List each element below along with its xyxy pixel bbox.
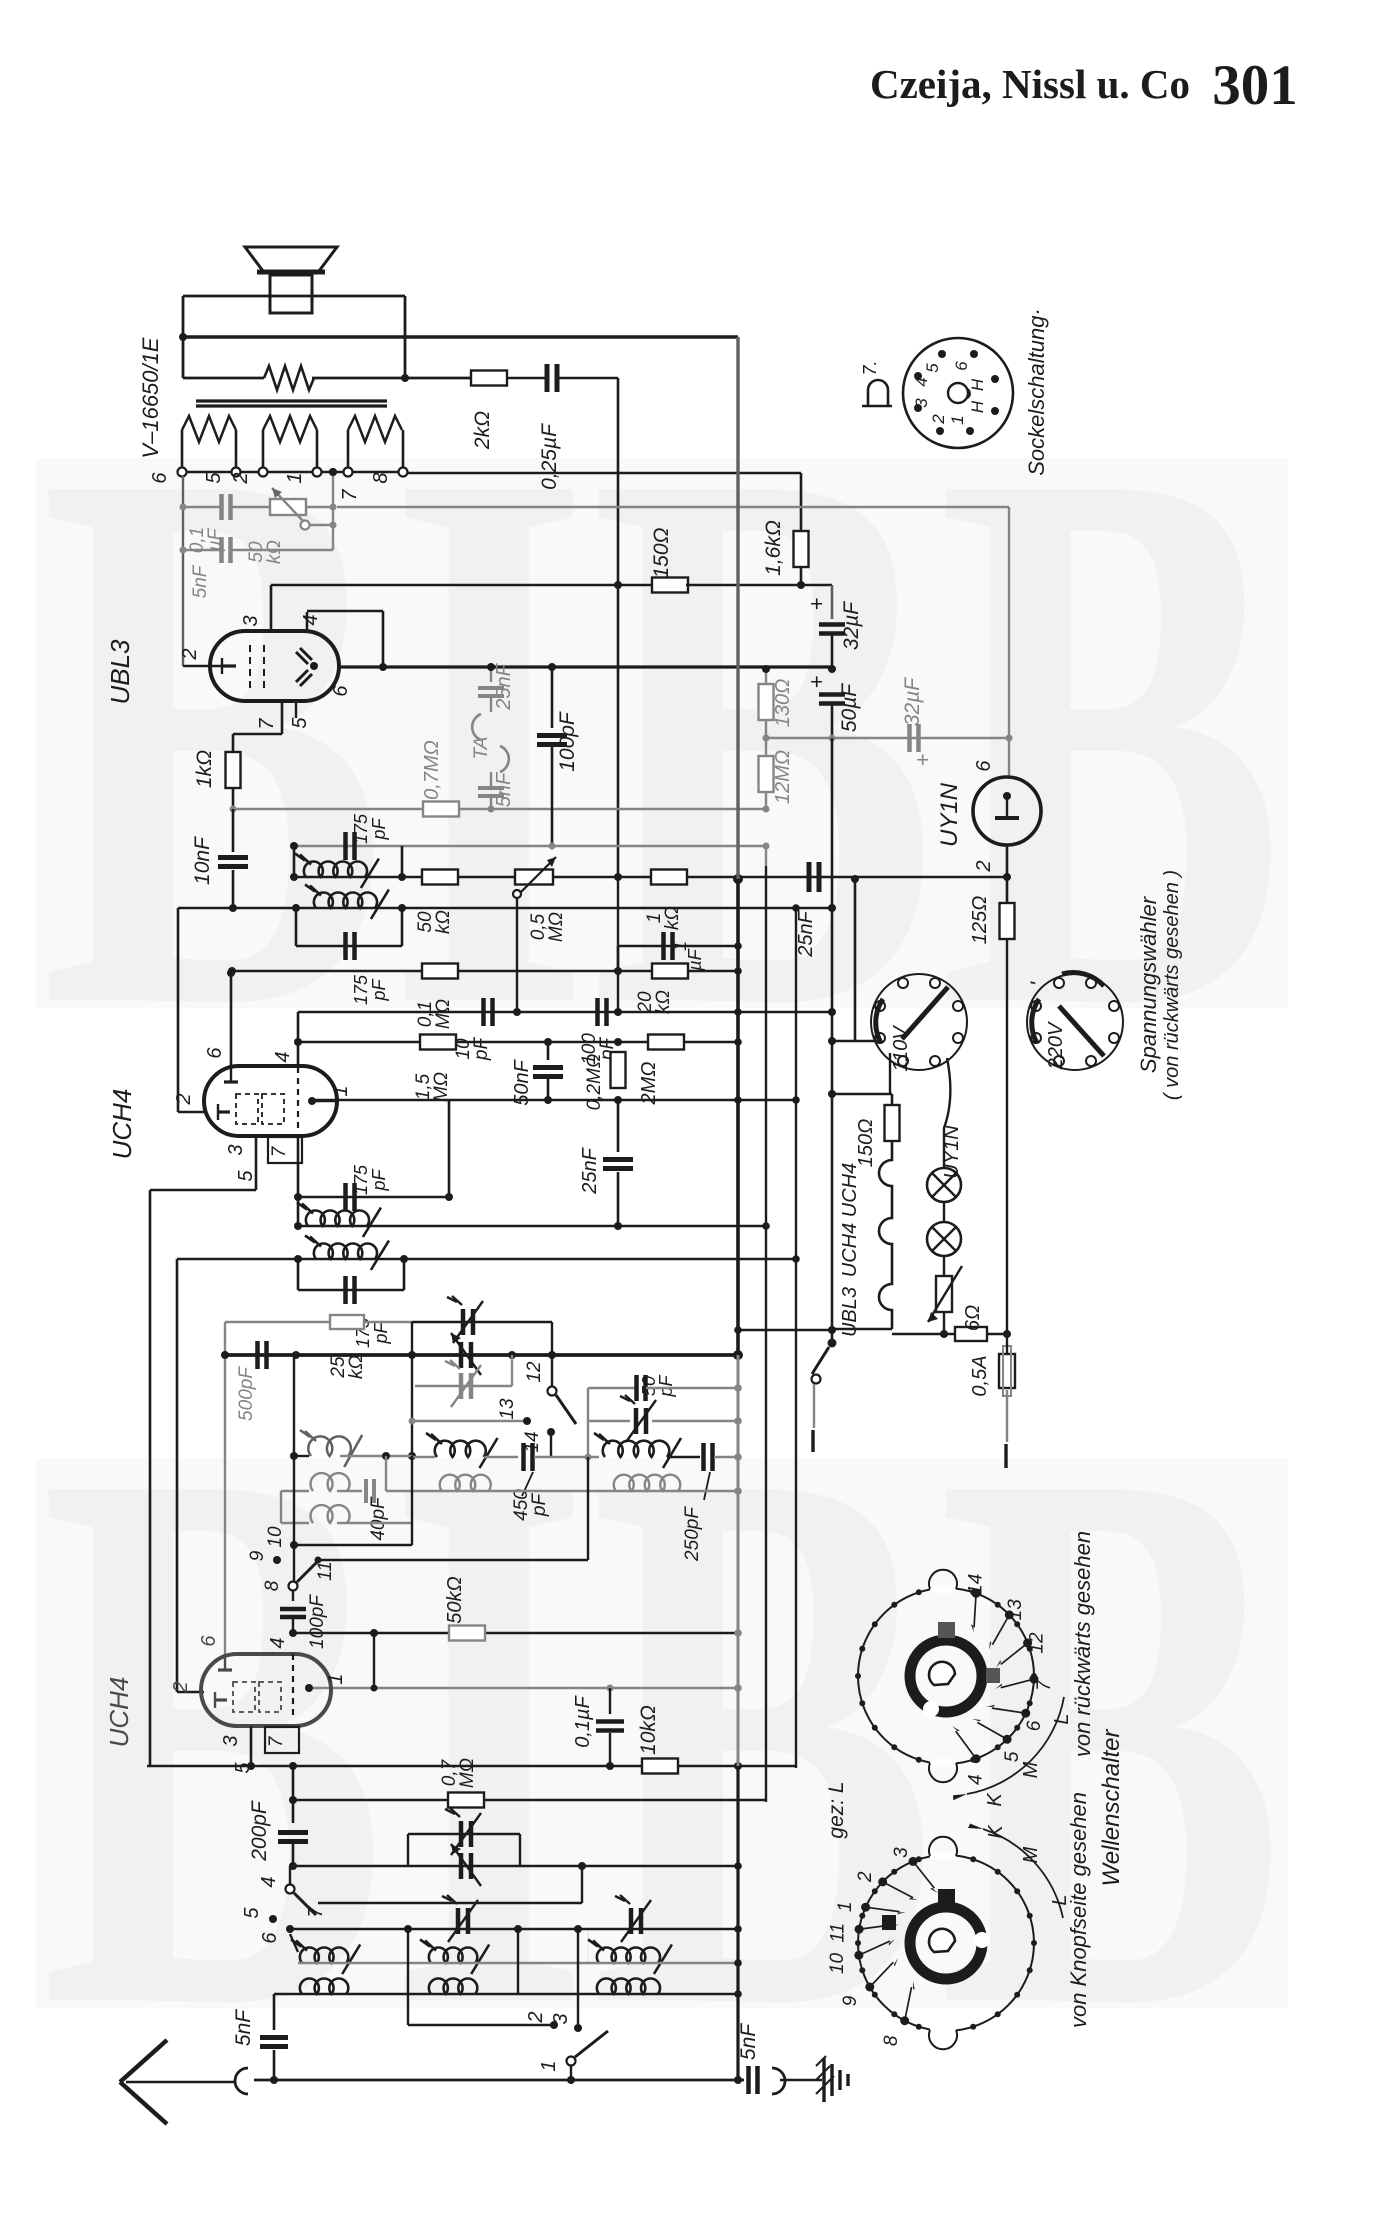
svg-text:25nF: 25nF [579,1146,601,1194]
svg-text:7: 7 [1034,1679,1055,1691]
svg-text:100pF: 100pF [556,711,579,772]
svg-text:1: 1 [538,2060,560,2071]
svg-text:MΩ: MΩ [431,1072,452,1102]
transformer primary winding 7-8 [347,430,350,467]
antenna coil row2 [300,1978,348,1994]
wire 50k line y1633 [293,1632,738,1635]
svg-text:+: + [804,675,829,688]
svg-text:Sockelschaltung·: Sockelschaltung· [1024,308,1049,476]
capacitor 25nF b [807,862,812,892]
coil IF Ib [314,1243,377,1259]
capacitor 50pF [634,1375,639,1401]
padder box [408,1833,520,1835]
oscillator coil row1 mid [435,1441,486,1457]
dial lamp 2 [943,1202,945,1222]
switch 8-11 [289,1582,298,1591]
phono jack TA branch [488,806,495,813]
svg-text:UCH4: UCH4 [104,1677,134,1748]
wire gray 0.7M line y809 [233,808,426,810]
cathode UBL3 [221,658,223,674]
wire terminal 6 down to UBL3 pin2 [182,476,184,666]
transformer primary winding 2-1 [262,430,265,467]
svg-text:3: 3 [550,2013,572,2024]
wire y1929 [290,1928,738,1930]
padder trimmer 1 [459,1821,464,1847]
svg-text:10: 10 [827,1952,848,1974]
gray coil row3 [311,1505,350,1523]
switch contact 12 [548,1387,557,1396]
svg-text:12: 12 [524,1361,545,1383]
svg-text:301: 301 [1212,54,1298,117]
pin 7 junction [289,1762,297,1770]
wire gray y507 to UY1N pin6 [337,506,1009,508]
svg-text:100pF: 100pF [307,1594,328,1649]
svg-text:von Knopfseite gesehen: von Knopfseite gesehen [1066,1792,1091,2028]
capacitor 25nF c [617,1100,620,1152]
svg-text:7: 7 [269,1145,290,1157]
wire 1k junction down [617,877,619,1012]
svg-text:5: 5 [241,1907,263,1919]
svg-text:10kΩ: 10kΩ [637,1705,660,1755]
svg-text:6: 6 [259,1932,281,1944]
gray coil row2 right [614,1475,681,1491]
resistor 1kOhm b [651,870,687,885]
transformer core bars [196,399,387,402]
wire gray osc 25k line [225,1321,330,1323]
wire gray y738 [766,737,1009,739]
svg-text:50nF: 50nF [511,1058,533,1105]
padder trimmer 2 [459,1853,464,1879]
capacitor 100pF b [595,998,600,1026]
svg-text:500pF: 500pF [236,1366,257,1421]
svg-text:V–16650/1E: V–16650/1E [138,337,163,458]
svg-text:5nF: 5nF [737,2023,760,2060]
potentiometer 50kOhm [270,499,306,515]
resistor 0,2MOhm [614,1038,622,1046]
resistor 0,7MOhm [423,802,459,817]
pin 3 wire b [250,1726,253,1766]
svg-text:1: 1 [284,472,306,483]
resistor 10kOhm [642,1759,678,1774]
svg-text:0,1µF: 0,1µF [572,1694,594,1747]
capacitor 32uF second [907,724,912,752]
wire gray y846 [294,845,766,847]
wire x832 rail [831,585,833,619]
wave switch front view [858,1855,1034,2031]
switch contact 4 [286,1885,295,1894]
svg-text:8: 8 [881,2035,902,2046]
svg-text:6: 6 [973,760,995,772]
wire main bus x738 [736,337,739,879]
wire pot bottom gray [183,549,221,551]
wire bus to switch [738,1329,832,1332]
svg-text:40pF: 40pF [368,1496,389,1541]
svg-text:kΩ: kΩ [346,1355,367,1379]
svg-text:2: 2 [929,414,948,425]
pin 7 wire [297,1136,300,1197]
svg-text:11: 11 [315,1561,336,1581]
pin 3 horizontal [150,1189,256,1192]
pin 7 box [268,1137,302,1163]
dial lamp 1 [927,1168,961,1202]
resistor 150Ohm heater [885,1105,900,1141]
capacitor 1uF 20k row [618,945,738,948]
svg-text:+: + [804,597,829,610]
capacitor 5nF right [746,2066,751,2094]
svg-text:175: 175 [351,974,371,1005]
antenna coil row1 [300,1947,348,1963]
pin 1 anode [308,1097,316,1105]
capacitor 175pF a [293,846,296,877]
svg-text:MΩ: MΩ [433,999,454,1029]
svg-text:5nF: 5nF [232,2009,255,2046]
svg-text:MΩ: MΩ [546,912,567,942]
contact 6 b [286,1925,294,1933]
contact 13 line [412,1420,527,1422]
svg-text:pF: pF [369,817,389,840]
svg-text:pF: pF [371,1321,391,1344]
rotor tab front [938,1889,955,1905]
heater chain bumps [879,1141,892,1329]
wire top bus [183,335,738,339]
voltage selector 220V [1027,974,1123,1070]
capacitor 5nF antenna [273,1994,276,2030]
svg-text:1: 1 [835,1901,856,1912]
resistor 2kOhm [471,371,507,386]
svg-text:6: 6 [204,1047,226,1059]
svg-text:3: 3 [891,1847,912,1858]
tube UCH4 first [204,1066,337,1136]
ground symbol [780,2079,822,2082]
gray line y1388 50pF [587,1388,589,1457]
resistor 50kOhm [422,870,458,885]
svg-text:6: 6 [149,472,171,484]
resistor 20kOhm [652,964,688,979]
transformer primary winding 6-5 [181,430,184,467]
wire left column x150 [149,1190,152,1766]
svg-text:2: 2 [525,2011,547,2023]
speaker [245,247,337,271]
capacitor 175pF d [297,1259,300,1290]
wire grid line y585 [271,584,655,587]
wire junction line y1355 [225,1353,738,1357]
svg-text:130Ω: 130Ω [772,679,794,728]
trimmer capacitor 3 [459,1373,464,1399]
svg-text:250pF: 250pF [682,1506,703,1562]
svg-text:MΩ: MΩ [457,1758,478,1788]
svg-text:125Ω: 125Ω [969,896,991,945]
svg-text:25nF: 25nF [493,662,515,710]
svg-text:2: 2 [855,1871,876,1883]
antenna trimmer B [629,1908,634,1934]
svg-text:pF: pF [656,1374,676,1397]
pin 4 wire jumper [306,612,309,631]
svg-text:6: 6 [952,361,971,371]
svg-text:175: 175 [351,1164,371,1195]
svg-text:7: 7 [256,718,278,730]
wire y1259 [177,1258,796,1261]
wire x296 osc down [293,1456,295,1581]
svg-text:7: 7 [305,1906,327,1918]
svg-text:( von rückwärts gesehen ): ( von rückwärts gesehen ) [1161,870,1183,1100]
antenna trimmer A [456,1908,461,1934]
wire bottom bus [254,2079,744,2082]
svg-text:3: 3 [225,1144,247,1155]
svg-text:2: 2 [173,1093,195,1105]
svg-text:6Ω: 6Ω [962,1305,984,1331]
svg-text:4: 4 [272,1051,294,1062]
svg-text:UY1N: UY1N [936,782,963,847]
decorative watermark [36,305,1288,2169]
svg-text:UCH4: UCH4 [107,1089,137,1160]
capacitor 200pF [292,1766,295,1823]
contact 5 b [269,1915,277,1923]
bell symbol [868,380,888,406]
resistor 12MOhm [765,738,767,756]
gray coil row2 left [311,1473,350,1491]
capacitor 100pF [548,663,556,671]
svg-text:kΩ: kΩ [653,990,674,1014]
wire x796 [795,908,797,1768]
wire [507,377,545,380]
variable resistor shunt [943,1256,945,1277]
svg-text:4: 4 [267,1637,289,1648]
resistor 150Ohm [652,578,688,593]
svg-text:2: 2 [973,860,995,872]
svg-text:1: 1 [325,1673,347,1684]
contact 10 [290,1541,298,1549]
wave switch rear view [858,1588,1034,1764]
node bus [733,874,743,884]
wire left down to UCH4 pin2 [177,908,180,1112]
svg-text:14: 14 [966,1574,987,1595]
tube UY1N [973,777,1041,845]
pin 6 anode wire [339,665,832,668]
svg-text:11: 11 [827,1923,848,1943]
capacitor 500pF [255,1341,260,1369]
svg-text:pF: pF [471,1037,492,1062]
svg-text:2kΩ: 2kΩ [471,411,494,450]
capacitor 10pF [481,998,486,1026]
terminal 2 [259,468,268,477]
power switch [828,1339,837,1348]
svg-text:5: 5 [289,717,311,729]
svg-text:pF: pF [369,978,389,1001]
fuse 0,5A [999,1354,1015,1388]
svg-text:7: 7 [339,489,361,501]
oscillator coil small [294,1455,309,1457]
svg-text:4: 4 [300,614,322,625]
svg-text:TA: TA [471,737,492,760]
capacitor 175pF b [295,908,298,946]
pin 2 wire [183,665,222,668]
resistor 6 Ohm [892,1333,1007,1336]
node junction 1-7 [329,468,337,476]
gray link y1386 [511,1355,513,1386]
resistor 1,5MOhm [420,1035,456,1050]
gray line y1421 trimmer [588,1420,630,1422]
transformer secondary winding [183,377,264,380]
rotor tab rear [938,1622,955,1638]
capacitor 0,1uF [219,494,224,520]
svg-text:12MΩ: 12MΩ [772,750,794,804]
grid dashes UBL3 [249,645,251,690]
wire x412 down [411,1355,413,1456]
svg-text:5nF: 5nF [493,771,515,807]
coil IF IIa [304,861,367,877]
svg-text:3: 3 [912,398,931,408]
switch 1-2-3 [550,2021,558,2029]
capacitor 50nF [544,1038,552,1046]
svg-text:32µF: 32µF [840,601,863,650]
node 50uF top [828,665,836,673]
coil IF IIb [314,892,377,908]
pin1 line UCH4 second [309,1687,738,1689]
trimmer capacitor 1 [461,1309,466,1335]
resistor 125 Ohm [1006,877,1009,903]
svg-text:1: 1 [948,415,967,424]
pin 6 wire [230,973,233,1067]
gray coil row2 mid [440,1475,491,1491]
capacitor 5nF TA [478,786,504,790]
resistor 1kOhm [232,734,235,752]
wire [686,584,832,587]
svg-text:3: 3 [240,615,262,626]
resistor 130Ohm [765,669,767,684]
svg-text:200pF: 200pF [248,1800,271,1862]
svg-text:UBL3: UBL3 [105,639,135,705]
svg-text:0,2MΩ: 0,2MΩ [584,1054,605,1111]
svg-text:32µF: 32µF [901,677,924,726]
svg-text:1: 1 [330,1085,352,1096]
svg-text:9: 9 [247,1550,268,1561]
svg-text:1,6kΩ: 1,6kΩ [762,520,785,576]
resistor 0,7MOhm b [448,1793,484,1808]
lamp wire from selector [944,1058,950,1168]
svg-text:UCH4: UCH4 [839,1223,861,1277]
wire y971 [232,970,738,973]
wire pot wiper down [516,898,518,1012]
svg-text:1kΩ: 1kΩ [193,750,216,788]
pin 1 anode b [305,1684,313,1692]
svg-text:5: 5 [232,1762,254,1774]
socket pins [938,350,946,358]
antenna symbol [120,2040,167,2082]
resistor 0,1MOhm [422,964,458,979]
svg-text:25nF: 25nF [795,909,817,957]
svg-text:4: 4 [258,1876,280,1887]
svg-text:6: 6 [330,685,352,697]
capacitor 32uF electrolytic [831,585,834,619]
potentiometer 0,5MOhm [515,870,553,885]
svg-text:kΩ: kΩ [662,906,683,930]
svg-text:110V: 110V [890,1025,912,1072]
wire left column x177 [176,1259,179,1692]
diode plates UBL3 [296,652,308,664]
svg-text:150Ω: 150Ω [650,527,673,578]
pin 7 wire [281,701,284,734]
capacitor 175pF c [298,1196,449,1199]
terminal 8 [399,468,408,477]
trimmer capacitor 2 [459,1342,464,1368]
wire terminal row [186,471,232,473]
svg-text:2: 2 [230,472,252,484]
svg-text:5: 5 [235,1170,257,1182]
svg-text:H: H [968,400,987,413]
terminal 6 [178,468,187,477]
capacitor 0,25uF [545,364,550,392]
svg-text:50µF: 50µF [838,683,861,732]
wire y1042 [298,1041,738,1044]
svg-text:8: 8 [262,1580,283,1591]
capacitor 0,1uF b [609,1688,611,1714]
wire terminal8 feed [408,472,801,475]
capacitor 100pF osc [292,1591,294,1601]
tube UBL3 [210,631,339,701]
resistor 50kOhm b [449,1626,485,1641]
capacitor 450pF [521,1443,526,1471]
wire x293 osc grid [293,1355,295,1581]
svg-text:10nF: 10nF [191,836,214,885]
svg-text:Spannungswähler: Spannungswähler [1136,895,1161,1073]
svg-text:kΩ: kΩ [264,540,285,564]
svg-text:220V: 220V [1045,1021,1067,1070]
coil IF Ia [306,1210,369,1226]
resistor 1,6kOhm [800,473,803,531]
contact 14 [547,1428,555,1436]
wire UY1N pin2 down [1006,845,1009,877]
wire y1012 [298,1011,832,1014]
svg-text:6: 6 [198,1635,220,1647]
pin 3 wire [255,1136,258,1190]
svg-text:Wellenschalter: Wellenschalter [1098,1729,1125,1887]
svg-text:H: H [968,378,987,391]
svg-text:5: 5 [923,363,942,373]
svg-text:7.: 7. [860,360,880,375]
svg-text:5nF: 5nF [190,564,211,598]
capacitor 50uF electrolytic [819,692,845,697]
gray row y1491 [386,1490,738,1492]
svg-text:5: 5 [1002,1751,1023,1762]
capacitor 5nF [219,537,224,563]
capacitor 40pF [364,1479,368,1503]
svg-text:12: 12 [1026,1632,1047,1654]
svg-text:6: 6 [1024,1720,1045,1731]
svg-text:3: 3 [220,1735,242,1746]
voltage selector 110V [871,974,967,1070]
grid boxes [236,1094,258,1124]
wire anode to 2k [405,377,470,380]
svg-text:0,5A: 0,5A [969,1355,991,1396]
selector to chain wire [889,1053,891,1094]
terminal 5 [232,468,241,477]
trimmer capacitor 4 [634,1408,639,1434]
wire x225 gray down to UCH4 II pin6 [224,1322,226,1654]
svg-text:7: 7 [266,1735,287,1747]
svg-text:kΩ: kΩ [433,910,454,934]
svg-text:pF: pF [529,1493,550,1518]
svg-text:von rückwärts gesehen: von rückwärts gesehen [1070,1531,1095,1757]
ground jack [772,2068,785,2094]
wire x855 to selector [854,879,857,1041]
svg-text:+: + [910,753,935,766]
svg-text:pF: pF [369,1168,389,1191]
oscillator coil row1 right [603,1441,669,1457]
svg-text:Czeija, Nissl u. Co: Czeija, Nissl u. Co [870,61,1190,107]
svg-text:13: 13 [497,1398,518,1420]
capacitor 250pF [701,1443,706,1471]
svg-text:K: K [984,1792,1006,1807]
